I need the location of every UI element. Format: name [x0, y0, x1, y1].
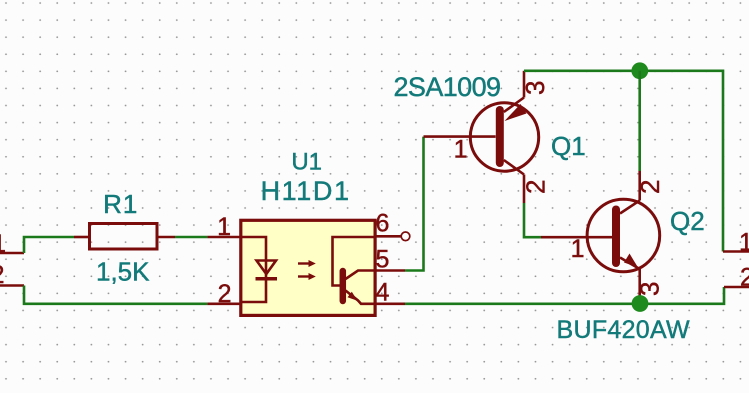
svg-text:3: 3 — [520, 81, 550, 95]
U1 LED — [242, 237, 277, 302]
svg-text:1,5K: 1,5K — [96, 256, 150, 286]
U1 pin 6 — [374, 210, 410, 241]
wire — [638, 71, 641, 171]
connector pin 1 (left) — [0, 230, 24, 258]
U1 phototransistor — [333, 237, 375, 304]
svg-text:1: 1 — [571, 235, 585, 263]
svg-text:1: 1 — [739, 229, 749, 257]
junction — [632, 295, 649, 312]
U1 pin 5 — [374, 245, 405, 273]
svg-text:Q2: Q2 — [670, 206, 705, 236]
wire — [405, 137, 424, 271]
svg-text:2: 2 — [740, 264, 749, 292]
svg-text:2: 2 — [0, 261, 5, 289]
transistor Q2 body — [587, 199, 660, 272]
svg-text:2: 2 — [521, 180, 551, 194]
Q1 pin 2 — [521, 175, 551, 204]
wire — [524, 71, 723, 252]
svg-text:5: 5 — [376, 245, 390, 273]
transistor Q1 body — [470, 98, 538, 175]
wire — [524, 203, 541, 237]
svg-text:R1: R1 — [103, 189, 138, 219]
wire — [405, 287, 724, 304]
wire — [24, 237, 74, 253]
resistor R1 — [74, 224, 175, 250]
svg-text:2: 2 — [218, 280, 232, 308]
svg-text:4: 4 — [376, 278, 390, 306]
connector pin 2 (right) — [724, 264, 749, 292]
Q1 pin 3 — [520, 71, 550, 98]
wire — [24, 286, 207, 304]
junction — [631, 62, 648, 79]
svg-text:3: 3 — [635, 282, 665, 296]
U1 pin 2 — [207, 280, 242, 308]
Q2 pin 2 — [635, 171, 665, 201]
svg-text:1: 1 — [217, 213, 231, 241]
svg-text:1: 1 — [454, 136, 468, 164]
connector pin 1 (right) — [723, 229, 749, 257]
svg-text:6: 6 — [376, 210, 390, 238]
svg-text:1: 1 — [0, 230, 6, 258]
Q1 pin 1 — [424, 136, 496, 164]
Q2 pin 1 — [541, 235, 612, 263]
optocoupler U1 body — [241, 220, 375, 315]
U1 pin 4 — [374, 278, 405, 306]
U1 coupling arrows — [298, 260, 316, 280]
svg-text:Q1: Q1 — [551, 131, 586, 161]
U1 pin 1 — [207, 213, 242, 241]
svg-text:H11D1: H11D1 — [261, 176, 351, 206]
svg-text:2: 2 — [635, 180, 665, 194]
connector pin 2 (left) — [0, 261, 24, 289]
svg-text:2SA1009: 2SA1009 — [394, 72, 501, 102]
wire — [175, 236, 207, 239]
Q2 pin 3 — [635, 269, 665, 300]
svg-text:U1: U1 — [291, 149, 322, 176]
svg-text:BUF420AW: BUF420AW — [557, 316, 691, 344]
